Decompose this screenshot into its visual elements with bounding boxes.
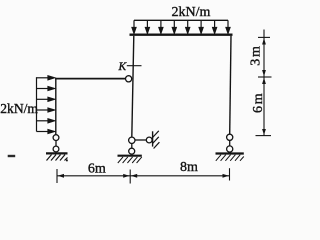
middle support lower circle bbox=[129, 148, 135, 154]
label q=2kN/m (top distributed load) bbox=[172, 5, 211, 20]
left support link bbox=[55, 141, 57, 147]
left load arrows (6 right) bbox=[37, 76, 55, 134]
column left bbox=[55, 78, 57, 135]
bottom dimension line bbox=[57, 168, 230, 183]
stray scan mark left edge bbox=[8, 155, 16, 157]
left load baseline bbox=[36, 77, 38, 131]
left support lower circle bbox=[53, 146, 59, 152]
svg-text:K: K bbox=[118, 61, 128, 73]
svg-text:3m: 3m bbox=[249, 44, 264, 66]
svg-text:2kN/m: 2kN/m bbox=[0, 101, 38, 116]
svg-text:8m: 8m bbox=[180, 160, 198, 175]
member left horizontal bbox=[55, 78, 126, 80]
tick at K on column bbox=[127, 65, 142, 67]
bottom dimension arrowheads bbox=[58, 174, 229, 178]
label K bbox=[118, 61, 128, 73]
column right bbox=[230, 36, 231, 135]
svg-text:6m: 6m bbox=[88, 162, 106, 177]
label 8m bbox=[180, 160, 198, 175]
stray dot bbox=[66, 160, 68, 162]
middle support ground bbox=[118, 156, 142, 163]
wall with hatches bbox=[153, 131, 160, 149]
wall link circle bbox=[146, 137, 152, 143]
right support link bbox=[229, 140, 231, 146]
hinge at joint near K bbox=[126, 76, 132, 82]
label 3m bbox=[249, 44, 264, 66]
right support ground bbox=[216, 154, 244, 161]
right dimension arrowheads bbox=[262, 38, 266, 135]
right dimension line bbox=[256, 30, 272, 136]
svg-text:2kN/m: 2kN/m bbox=[172, 5, 211, 20]
top load baseline bbox=[134, 19, 228, 21]
middle support hinge circle bbox=[129, 137, 135, 143]
right support hinge circle bbox=[227, 134, 233, 140]
right support lower circle bbox=[227, 146, 233, 152]
label 6m (right) bbox=[251, 92, 266, 114]
label 6m (bottom) bbox=[88, 162, 106, 177]
column middle bbox=[132, 36, 134, 137]
left support ground bbox=[46, 153, 68, 160]
beam top (thick) bbox=[130, 34, 233, 36]
horizontal link to wall bbox=[135, 139, 146, 141]
middle support link bbox=[131, 143, 133, 148]
left support hinge circle bbox=[53, 135, 59, 141]
top load arrows (8 down) bbox=[132, 20, 230, 33]
svg-text:6m: 6m bbox=[251, 92, 266, 114]
label q=2kN/m (left distributed load) bbox=[0, 101, 38, 116]
